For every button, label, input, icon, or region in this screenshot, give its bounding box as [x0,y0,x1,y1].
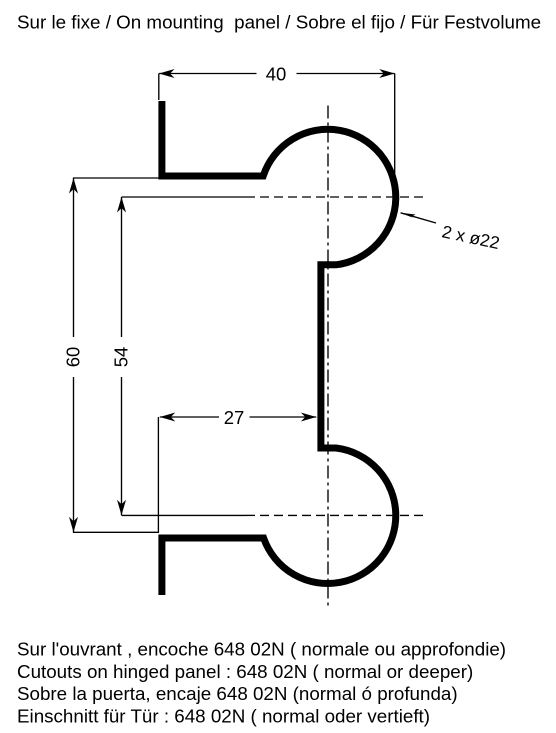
dimension 40: extension lines [159,74,395,205]
dimension 60: top arrow [69,178,78,194]
svg-text:Sur le fixe / On mounting pan: Sur le fixe / On mounting panel / Sobre … [17,12,541,33]
dimension 54: line with text gap [121,197,123,515]
dimension 60: bottom arrow [69,517,78,533]
dimension 40: line [159,73,395,75]
leader arrow [401,213,416,219]
dimension 27: left arrow [160,413,176,422]
centerline horizontal top hole (solid then dashed) [122,196,247,198]
svg-text:40: 40 [266,64,287,85]
svg-text:2 x ø22: 2 x ø22 [440,221,501,253]
svg-text:60: 60 [63,347,84,368]
dimension 54: top arrow [117,197,126,213]
dimension 27: extension line [157,417,159,533]
leader line for hole diameter [401,213,436,223]
dimension 60: extension lines [73,178,159,532]
dimension 40: right arrow [379,69,395,78]
svg-text:Sobre la puerta, encaje 648 02: Sobre la puerta, encaje 648 02N (normal … [17,683,458,704]
svg-text:Cutouts on hinged panel : 648: Cutouts on hinged panel : 648 02N ( norm… [17,661,473,682]
centerline horizontal bottom hole [122,514,247,516]
dimension 60: line with text gap [73,178,75,532]
svg-text:54: 54 [111,347,132,368]
svg-text:Einschnitt für Tür : 648 02N (: Einschnitt für Tür : 648 02N ( normal od… [17,705,430,726]
dimension 27: right arrow [301,413,317,422]
dimension 27: line with text gap [160,416,316,418]
svg-text:27: 27 [224,407,245,428]
dimension 54: bottom arrow [117,500,126,516]
dimension 40: left arrow [159,69,175,78]
centerline vertical (dash-dot) through both holes [327,106,329,609]
cutout outline (thick profile) [162,101,396,595]
svg-text:Sur l'ouvrant , encoche 648 02: Sur l'ouvrant , encoche 648 02N ( normal… [17,639,506,660]
